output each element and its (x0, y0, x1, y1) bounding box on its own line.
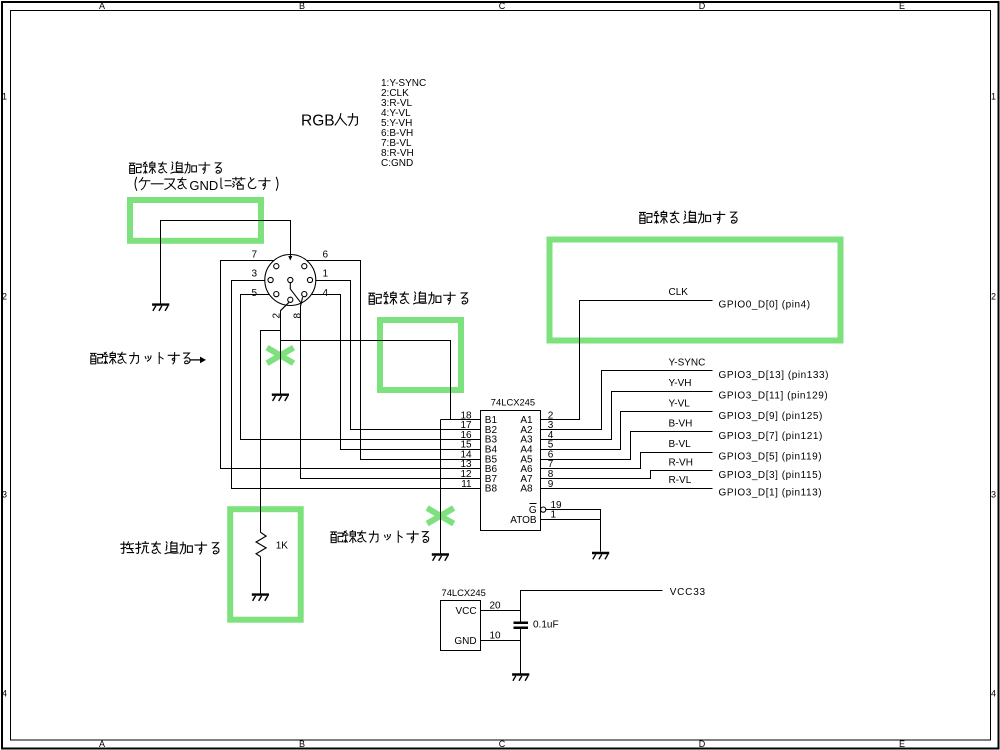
wire VCC33 rail (521, 591, 663, 622)
wire U1 ATOB to ground (541, 519, 601, 521)
svg-text:Y-VL: Y-VL (669, 398, 691, 409)
svg-text:GND: GND (454, 636, 476, 647)
svg-text:GPIO3_D[5] (pin119): GPIO3_D[5] (pin119) (719, 452, 823, 463)
svg-text:7: 7 (251, 250, 257, 261)
svg-text:VCC: VCC (455, 606, 476, 617)
svg-text:R-VH: R-VH (669, 457, 693, 468)
svg-text:8: 8 (292, 313, 303, 319)
connector J1 8-pin DIN (265, 255, 316, 306)
title RGB input (301, 113, 357, 130)
svg-text:GPIO3_D[1] (pin113): GPIO3_D[1] (pin113) (719, 488, 823, 499)
svg-text:1: 1 (323, 269, 329, 280)
svg-text:20: 20 (490, 600, 502, 611)
svg-text:2: 2 (2, 292, 7, 302)
svg-text:R-VL: R-VL (669, 475, 692, 486)
U1 inversion bubble pin 19 (541, 507, 546, 512)
annotation: add wire (drop case to GND) line1 (129, 162, 221, 174)
wire J1 pin5 to U1 B3 (241, 295, 481, 440)
cut mark X1 on DIN pin2 ground wire (267, 348, 294, 364)
wire J1 pin2 tap to resistor (261, 331, 281, 533)
svg-text:VCC33: VCC33 (670, 587, 706, 598)
ground GND6 (resistor) (252, 595, 269, 601)
wire U1 A side net CLK (541, 301, 713, 420)
wire J1 pin4 to U1 B4 (312, 295, 481, 450)
wire J1 pin8 to U1 B7 (300, 297, 302, 306)
svg-text:D: D (699, 1, 706, 11)
svg-text:E: E (899, 739, 905, 749)
svg-text:3: 3 (991, 490, 996, 500)
wire U1 A side net B-VH (541, 432, 713, 460)
highlight box H3 (add resistor) (230, 509, 301, 620)
wire cap to ground (520, 629, 522, 674)
wire CLK: J1 pin2 to U1 B1 (added) (281, 341, 451, 420)
wire J1 pin1 to U1 B2 (316, 281, 481, 430)
wire U1 A side net R-VH (541, 471, 713, 479)
svg-text:A: A (99, 1, 105, 11)
svg-text:C: C (499, 1, 506, 11)
wire: case shield to GND (added) (161, 221, 291, 304)
highlight box H2 (add wire right) (550, 240, 841, 341)
annotation: add resistor (121, 542, 219, 554)
highlight box H1 (add wire / case GND) (130, 200, 261, 241)
svg-text:B-VH: B-VH (669, 419, 693, 430)
ground GND1 (case wire) (152, 305, 169, 311)
annotation: add wire (middle) (369, 292, 468, 304)
wire U1 A side net B-VL (541, 453, 713, 469)
cut mark X2 on U1 pin18 ground wire (427, 508, 454, 524)
svg-text:5: 5 (251, 288, 257, 299)
annotation: add wire (drop case to GND) line2 (135, 177, 278, 192)
svg-text:4: 4 (2, 689, 7, 699)
annotation: cut wire (left, with arrow) (91, 352, 206, 364)
resistor R1 1K (256, 532, 266, 556)
U1 pin label G (active low) (529, 504, 537, 517)
wire U1 G to ground (546, 510, 601, 552)
svg-text:GPIO3_D[7] (pin121): GPIO3_D[7] (pin121) (719, 431, 823, 442)
annotation: add wire (right) (640, 211, 738, 223)
svg-text:B: B (299, 1, 305, 11)
capacitor C1 0.1uF (514, 623, 528, 628)
wire J1 pin2 down to ground (to be cut) (280, 303, 288, 311)
svg-text:GPIO3_D[11] (pin129): GPIO3_D[11] (pin129) (719, 391, 829, 402)
svg-text:B8: B8 (485, 484, 498, 495)
svg-text:4: 4 (323, 288, 329, 299)
svg-text:1K: 1K (276, 541, 289, 552)
svg-text:B-VL: B-VL (669, 439, 692, 450)
svg-text:GPIO3_D[13] (pin133): GPIO3_D[13] (pin133) (719, 370, 830, 381)
wire VCC pin to cap node (481, 611, 521, 641)
svg-text:D: D (699, 739, 706, 749)
ground GND5 (decoupling) (512, 675, 529, 681)
svg-text:GPIO3_D[9] (pin125): GPIO3_D[9] (pin125) (719, 411, 823, 422)
wire U1 pin18 B1 stub (441, 419, 481, 421)
svg-text:11: 11 (461, 479, 472, 490)
svg-text:GND: GND (189, 178, 218, 193)
connector pin assignment list (381, 78, 426, 169)
annotation: cut wire (bottom middle) (331, 531, 429, 543)
svg-text:Y-VH: Y-VH (669, 378, 692, 389)
svg-text:ATOB: ATOB (510, 515, 537, 526)
svg-text:1: 1 (991, 92, 996, 102)
ground GND3 (U1 pin18 old wire) (432, 555, 449, 561)
svg-text:1: 1 (2, 92, 7, 102)
svg-text:A: A (99, 739, 105, 749)
svg-text:10: 10 (490, 630, 502, 641)
ground GND4 (U1 G/ATOB) (592, 553, 609, 559)
svg-text:GPIO3_D[3] (pin115): GPIO3_D[3] (pin115) (719, 470, 823, 481)
svg-text:Y-SYNC: Y-SYNC (669, 357, 706, 368)
frame row labels right (991, 92, 996, 699)
wire J1 pin6 to U1 B5 (307, 261, 481, 460)
svg-text:A8: A8 (520, 484, 533, 495)
arrow to connector shell (288, 256, 292, 261)
frame row labels left (2, 92, 7, 699)
svg-text:74LCX245: 74LCX245 (491, 397, 535, 408)
ground GND2 (J1 pin2 old wire) (272, 395, 289, 401)
op IC U1 74LCX245 body (481, 411, 541, 531)
svg-text:74LCX245: 74LCX245 (442, 587, 486, 598)
power pins U1b 74LCX245 body (441, 601, 481, 651)
svg-text:E: E (899, 1, 905, 11)
wire U1 A side net R-VL (541, 488, 713, 490)
frame column labels top (99, 1, 905, 11)
wire U1 pin18 to ground (to be cut) (440, 420, 442, 554)
wire J1 pin3 to U1 B8 (232, 281, 481, 489)
wire U1 A side net Y-VL (541, 412, 713, 450)
svg-text:3: 3 (2, 490, 7, 500)
svg-text:C: C (499, 739, 506, 749)
svg-text:GPIO0_D[0] (pin4): GPIO0_D[0] (pin4) (719, 300, 811, 311)
svg-text:4: 4 (991, 689, 996, 699)
frame column labels bottom (99, 739, 905, 749)
svg-text:RGB: RGB (301, 113, 335, 130)
wire U1 A side net Y-VH (541, 392, 713, 440)
wire J1 pin7 to U1 B6 (221, 261, 481, 469)
svg-text:3: 3 (251, 269, 257, 280)
svg-text:CLK: CLK (669, 287, 689, 298)
svg-text:0.1uF: 0.1uF (533, 620, 559, 631)
highlight box H4 (add wire middle) (380, 320, 461, 390)
svg-text:C:GND: C:GND (381, 158, 413, 169)
wire U1 A side net Y-SYNC (541, 371, 713, 430)
svg-text:B: B (299, 739, 305, 749)
svg-text:6: 6 (323, 250, 329, 261)
svg-text:2: 2 (991, 292, 996, 302)
